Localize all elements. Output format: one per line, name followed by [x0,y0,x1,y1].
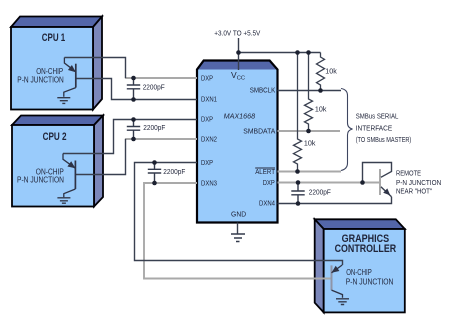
svg-text:P-N JUNCTION: P-N JUNCTION [17,176,64,185]
svg-text:2200pF: 2200pF [163,167,185,176]
svg-text:SMBus SERIAL: SMBus SERIAL [356,114,399,121]
svg-text:(TO SMBus MASTER): (TO SMBus MASTER) [356,137,412,144]
svg-text:10k: 10k [325,66,337,75]
svg-text:GND: GND [231,212,246,219]
svg-text:CONTROLLER: CONTROLLER [335,243,397,255]
svg-text:10k: 10k [315,105,327,114]
svg-text:DXN3: DXN3 [201,179,217,188]
svg-text:2200pF: 2200pF [143,82,165,91]
svg-text:2200pF: 2200pF [143,123,165,132]
svg-text:SMBCLK: SMBCLK [250,86,276,95]
svg-text:+3.0V TO +5.5V: +3.0V TO +5.5V [214,31,260,38]
svg-text:MAX1668: MAX1668 [224,112,256,121]
svg-text:P-N JUNCTION: P-N JUNCTION [346,277,394,286]
svg-text:CPU 1: CPU 1 [42,32,66,44]
svg-text:SMBDATA: SMBDATA [243,127,276,136]
svg-text:P-N JUNCTION: P-N JUNCTION [17,76,64,85]
svg-text:DXN2: DXN2 [201,135,217,144]
svg-text:DXP: DXP [201,115,213,124]
svg-text:CC: CC [237,75,245,81]
svg-text:NEAR "HOT": NEAR "HOT" [396,188,433,195]
svg-text:INTERFACE: INTERFACE [356,125,393,132]
svg-text:DXN4: DXN4 [259,199,275,208]
svg-text:DXN1: DXN1 [201,95,217,104]
svg-text:DXP: DXP [201,158,213,167]
svg-text:P-N JUNCTION: P-N JUNCTION [396,180,441,187]
svg-text:CPU 2: CPU 2 [43,131,67,143]
svg-text:10k: 10k [304,138,316,147]
svg-text:DXP: DXP [263,178,275,187]
svg-text:REMOTE: REMOTE [396,171,421,178]
svg-text:2200pF: 2200pF [309,188,331,197]
svg-text:ON-CHIP: ON-CHIP [346,268,372,277]
svg-text:DXP: DXP [201,74,213,83]
